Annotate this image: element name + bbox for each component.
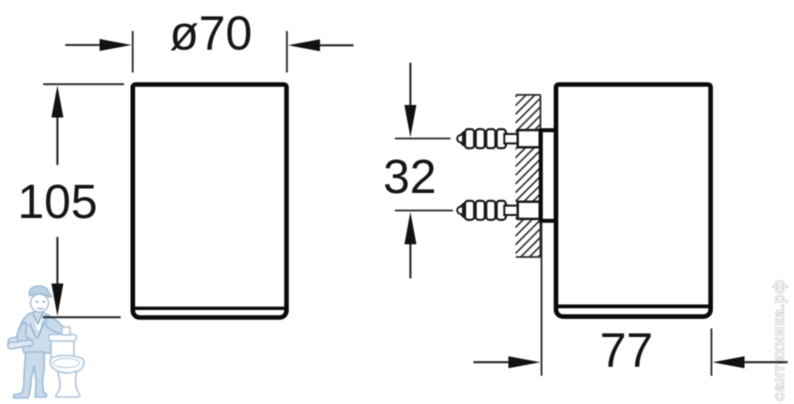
arrow left-pointing [713,356,745,368]
ext line lower [395,210,453,212]
toilet cistern [51,338,74,359]
dim line upper shaft [56,117,58,165]
flush pipe / hand grip [62,327,70,335]
cup holder front view body [133,85,287,318]
holder body (side view) [556,85,711,317]
ext line bottom [43,316,121,318]
wall bottom border [516,256,541,258]
wall hatch [515,72,540,280]
dim line lower shaft [56,237,58,285]
svg-text:105: 105 [17,176,97,229]
holder body inner bottom line (side view) [558,304,709,308]
legs [13,352,46,398]
arrow right-pointing [508,356,540,368]
ext line upper [395,138,451,140]
ext line right [710,328,712,375]
arrow right-pointing [100,39,132,51]
dim line lower shaft [409,242,411,278]
face features [36,302,45,310]
wall face line [539,95,541,257]
ext line top [43,83,124,85]
shirt highlight [34,316,42,330]
screw 2 [457,201,540,220]
arrow up-pointing [404,212,416,244]
watermark logo: plumber with toilet [8,286,84,398]
front view inner bottom line [135,307,285,310]
left arm holding wrench [17,322,32,347]
svg-text:77: 77 [600,324,653,377]
arrow left-pointing [288,39,320,51]
ext line left [132,31,134,73]
ext line right [286,31,288,73]
watermark text (vertical, right edge) [771,279,788,401]
svg-text:сантехника.рф: сантехника.рф [771,279,788,401]
cap [29,286,49,297]
wall top border [516,94,541,96]
svg-text:ø70: ø70 [169,7,252,60]
right arm reaching to cistern [46,316,68,336]
mounting plate [541,130,556,221]
pipe wrench [8,340,33,349]
jacket lapel lines [30,314,44,338]
ext line left [541,223,543,376]
dim line right segment [318,44,354,46]
dim line left segment [473,361,510,363]
arrow down-pointing [51,284,63,317]
arrow up-pointing [51,86,63,118]
head [31,294,49,312]
toilet pedestal [56,371,80,397]
svg-text:32: 32 [383,151,436,204]
dim line upper shaft [409,63,411,108]
toilet bowl [50,356,84,374]
screw 1 [457,129,540,148]
torso jacket [18,312,58,353]
arrow down-pointing [404,105,416,137]
dim line left segment [65,44,102,46]
dim line right segment [744,361,788,363]
